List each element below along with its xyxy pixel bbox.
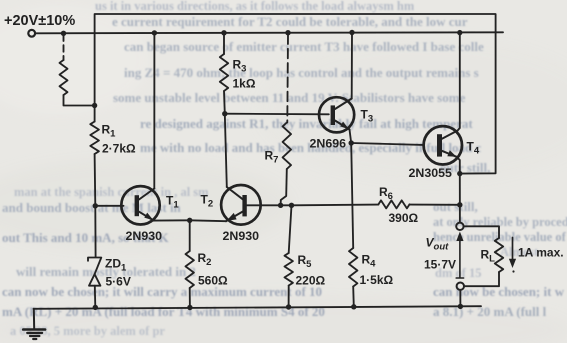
wire T3 emitter to node <box>350 130 352 144</box>
transistor T3 <box>319 97 354 132</box>
node +20V input terminal <box>28 30 35 37</box>
node: output ground <box>458 304 463 309</box>
wire T1 emitter to R2 node <box>154 219 190 221</box>
wire T3 collector to rail <box>351 33 353 99</box>
wire R1 to T1 base node <box>94 154 97 206</box>
wire T3 emitter node to T4 base <box>351 143 423 145</box>
wire R3 bottom to node <box>223 91 226 114</box>
svg-text:2N3055: 2N3055 <box>409 166 453 180</box>
wire R2 top <box>189 220 191 251</box>
node: T1 base / ZD1 <box>93 203 98 208</box>
wire load loop top <box>464 226 499 238</box>
svg-text:1·5kΩ: 1·5kΩ <box>360 273 394 287</box>
wire R3 top <box>223 33 225 54</box>
wire load loop bottom <box>464 272 499 286</box>
svg-text:ing Z4 = 470 ohm; the loop has: ing Z4 = 470 ohm; the loop has control a… <box>124 65 479 80</box>
node: T4 emitter / feedback <box>457 171 462 176</box>
wire R4 bottom <box>352 287 355 307</box>
wire R7 dashed from rail <box>286 35 289 123</box>
wire R6 left to T2 base node <box>293 204 379 207</box>
wire ZD1 top <box>94 206 96 257</box>
svg-text:220Ω: 220Ω <box>296 274 326 288</box>
node: R5 top <box>289 203 294 208</box>
wire lower terminal to ground rail <box>459 290 461 306</box>
node: aux/R1 junction <box>92 103 97 108</box>
node: R2 ground <box>187 305 192 310</box>
transistor T2 <box>221 185 261 225</box>
svg-text:can began source of emitter cu: can began source of emitter current T3 h… <box>124 39 484 54</box>
wire T2 base <box>247 204 293 206</box>
node output terminal + <box>456 223 463 230</box>
node: R4 ground <box>351 304 356 309</box>
transistor T4 <box>424 126 462 164</box>
wire R6 right <box>410 204 460 206</box>
node: T3 emitter / T4 base / R4 <box>349 140 354 145</box>
wire top +20V rail <box>35 32 503 33</box>
svg-text:2N930: 2N930 <box>223 229 260 243</box>
node: T3 collector on rail <box>349 30 354 35</box>
1A max load current arrow <box>512 238 514 263</box>
wire Vout feedback loop (R1 top to output) <box>95 14 496 174</box>
svg-text:5·6V: 5·6V <box>106 275 131 289</box>
wire T2 collector to R3 node <box>225 114 227 187</box>
node: T4 collector on rail <box>457 30 462 35</box>
svg-text:560Ω: 560Ω <box>198 274 228 288</box>
ground <box>33 309 35 330</box>
wire node to T3 base <box>225 113 329 116</box>
zener ZD1 <box>88 258 101 275</box>
node: R5 ground <box>286 304 291 309</box>
wire T4 emitter down <box>457 157 460 174</box>
Vout arrow <box>459 235 461 278</box>
svg-text:re designed against R1, they i: re designed against R1, they invariably … <box>140 116 473 131</box>
svg-text:1A max.: 1A max. <box>518 246 564 260</box>
wire R5 top <box>289 205 292 253</box>
svg-text:2N696: 2N696 <box>310 137 347 151</box>
svg-text:2N930: 2N930 <box>126 229 163 243</box>
node output terminal - <box>457 283 464 290</box>
svg-text:1kΩ: 1kΩ <box>233 77 256 91</box>
node: R3 on rail <box>221 30 226 35</box>
svg-text:can now be chosen; it will car: can now be chosen; it will carry a maxim… <box>2 284 322 299</box>
node: emitters / R2 <box>187 218 192 223</box>
svg-text:man at the spanish current in: man at the spanish current in , al sm <box>14 185 209 199</box>
node: R6 / output <box>457 202 462 207</box>
svg-text:hence unreliable value of S4 d: hence unreliable value of S4 d <box>433 230 567 244</box>
wire R4 top (crosses R6 wire, no dot) <box>351 143 353 248</box>
svg-text:us it in various directions, a: us it in various directions, as it follo… <box>95 0 415 13</box>
wire T1 base <box>95 205 123 207</box>
resistor aux (no designator) <box>60 60 68 95</box>
node: R7 on rail <box>285 30 290 35</box>
svg-text:e current requirement for T2 c: e current requirement for T2 could be to… <box>112 14 468 29</box>
wire R1 branch top <box>94 33 96 121</box>
svg-text:mA (RL) + 20 mA (full load for: mA (RL) + 20 mA (full load for T4 with m… <box>2 304 325 319</box>
svg-text:2·7kΩ: 2·7kΩ <box>102 142 136 156</box>
svg-text:and bound boost at me M last i: and bound boost at me M last in <box>2 200 182 215</box>
wire ZD1 to ground rail <box>94 286 97 308</box>
wire bottom ground rail <box>34 306 482 309</box>
svg-text:at only reliable by procedur: at only reliable by procedur <box>433 215 567 229</box>
resistor R6 <box>378 200 409 208</box>
svg-text:390Ω: 390Ω <box>389 211 419 225</box>
wire unlabeled aux resistor branch (dashed) <box>63 35 65 61</box>
transistor T1 <box>121 186 159 224</box>
svg-text:out still,: out still, <box>433 199 478 214</box>
wire output node to terminal <box>459 174 461 223</box>
node: T1 collector on rail <box>152 30 157 35</box>
node: ZD1 ground <box>93 305 98 310</box>
resistor R2 <box>186 251 194 288</box>
node: R3 / T2 collector / T3 base <box>222 111 227 116</box>
wire aux resistor bottom elbow <box>64 95 95 106</box>
resistor R4 <box>349 248 357 287</box>
resistor R3 <box>220 54 228 91</box>
wire R5 bottom <box>288 286 290 308</box>
node: R7 bottom <box>278 203 283 208</box>
wire T1 collector to rail <box>153 33 155 189</box>
wire R7 bottom to T2 base node <box>281 169 287 205</box>
resistor R1 <box>90 122 99 155</box>
wire T2 emitter to R2 node <box>190 219 226 222</box>
svg-text:some unstable level between 11: some unstable level between 11 and 19 V.… <box>113 90 466 105</box>
node: aux branch on rail <box>61 31 66 36</box>
resistor R5 <box>285 253 293 286</box>
resistor RL <box>495 238 503 272</box>
wire R2 bottom <box>189 288 191 308</box>
svg-text:15·7V: 15·7V <box>424 258 456 272</box>
resistor R7 <box>283 123 291 170</box>
wire T4 collector to rail <box>458 33 460 131</box>
svg-text:+20V±10%: +20V±10% <box>4 13 75 29</box>
